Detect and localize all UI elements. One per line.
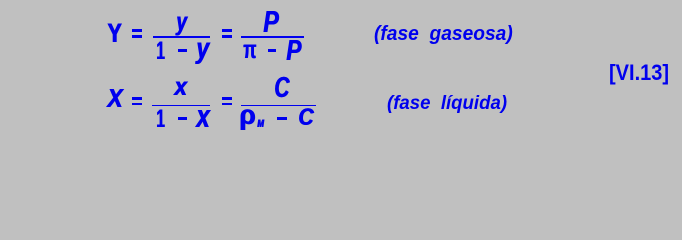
fraction 2 numerator P [263,6,278,37]
equals sign 1 top stroke [132,29,142,32]
fraction 1 denominator 1 [156,39,165,64]
fraction 4 numerator C [274,74,289,103]
fraction 3 numerator x [174,75,187,100]
fraction 1 bar [153,36,210,38]
equals sign 1 bottom stroke [132,35,142,38]
equals sign 1 row2 bottom stroke [132,103,142,106]
fraction 1 denominator y [196,34,209,64]
variable Y [107,20,122,47]
equation number [VI.13] [609,62,669,84]
fraction 4 denominator C [298,106,313,131]
fraction 2 bar [241,36,304,38]
label fase gaseosa [374,24,513,44]
fraction 2 denominator minus [268,49,276,52]
fraction 1 denominator minus [178,49,187,52]
fraction 3 bar [152,105,210,107]
fraction 2 denominator P [286,37,301,66]
equals sign 2 row2 bottom stroke [222,103,232,106]
equals sign 1 row2 top stroke [132,97,142,100]
fraction 2 denominator pi [243,36,256,62]
fraction 3 denominator 1 [156,107,165,132]
fraction 4 bar [241,105,316,107]
fraction 4 denominator minus [277,117,287,120]
equals sign 2 top stroke [222,29,232,32]
fraction 4 denominator subscript M [257,119,264,130]
fraction 3 denominator x [196,100,210,132]
fraction 1 numerator y [176,8,187,34]
label fase liquida [387,94,507,114]
fraction 3 denominator minus [178,117,187,120]
equals sign 2 bottom stroke [222,35,232,38]
variable X [107,87,122,113]
equals sign 2 row2 top stroke [222,97,232,100]
fraction 4 denominator rho [239,101,255,129]
